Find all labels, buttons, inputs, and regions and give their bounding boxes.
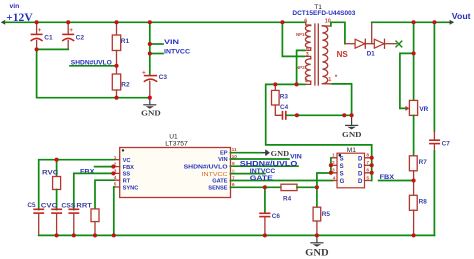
svg-text:R2: R2 <box>121 81 130 88</box>
svg-text:C7: C7 <box>442 140 451 147</box>
svg-text:T1: T1 <box>314 4 322 11</box>
transformer T1 secondary winding NS (pins 10,1) <box>322 18 348 84</box>
transformer T1 core <box>315 24 318 85</box>
junction dots VIN INTVCC stubs <box>148 42 152 56</box>
svg-text:R3: R3 <box>280 93 289 100</box>
junction dot SHDN divider <box>114 64 118 68</box>
svg-text:SYNC: SYNC <box>123 185 139 191</box>
diode D1 (dual, series) <box>345 22 397 57</box>
svg-text:FBX: FBX <box>123 165 135 171</box>
svg-text:RVC: RVC <box>42 169 59 176</box>
svg-text:+: + <box>69 27 73 34</box>
wire VR branch <box>413 22 415 53</box>
resistor R5 <box>313 187 330 235</box>
svg-text:GATE: GATE <box>250 175 274 182</box>
wire SHDN#/UVLO stub with net label <box>231 161 299 168</box>
svg-text:VC: VC <box>123 158 131 164</box>
junction dots Vout rail <box>412 20 437 24</box>
resistor R3 <box>272 84 289 115</box>
power port GND at EP pin <box>231 149 290 158</box>
junction dots snubber ground rail <box>295 113 354 117</box>
svg-text:SHDN#/UVLO: SHDN#/UVLO <box>240 161 298 168</box>
svg-text:D: D <box>358 156 363 162</box>
svg-text:D: D <box>358 164 363 170</box>
svg-text:6: 6 <box>366 168 369 174</box>
svg-text:S: S <box>340 171 344 177</box>
no-connect X on D1 <box>396 41 403 48</box>
svg-text:R7: R7 <box>419 159 428 166</box>
svg-text:LT3757: LT3757 <box>165 140 188 147</box>
svg-text:RT: RT <box>123 179 131 185</box>
net label FBX (left) with wire <box>80 167 114 176</box>
wire switch node (pin4 to drain) <box>266 84 372 144</box>
transformer T1 primary winding NP1 (pins 6,5) <box>296 19 311 53</box>
svg-text:D: D <box>358 171 363 177</box>
wire SYNC down to ground rail <box>113 187 116 235</box>
svg-text:C4: C4 <box>280 104 289 111</box>
transformer T1 primary winding NP2 (pins 3,4) <box>296 52 311 85</box>
svg-text:VIN: VIN <box>164 39 180 46</box>
resistor R2 <box>112 66 130 98</box>
capacitor C6 <box>259 187 280 235</box>
svg-text:EP: EP <box>220 150 228 156</box>
junction dot RVC tap <box>55 158 59 162</box>
resistor R7 <box>409 156 427 181</box>
wire pin10 to diode <box>331 22 345 43</box>
capacitor C3 <box>142 69 167 97</box>
svg-text:5: 5 <box>366 175 369 181</box>
resistor RVC <box>42 160 61 210</box>
svg-text:D: D <box>358 179 363 185</box>
junction dots M1 source bus <box>329 163 333 175</box>
svg-text:SS: SS <box>123 172 131 178</box>
svg-text:G: G <box>340 179 345 185</box>
svg-text:R4: R4 <box>283 196 292 203</box>
wire SENSE row <box>231 186 282 188</box>
svg-text:VIN: VIN <box>218 157 227 163</box>
svg-text:VR: VR <box>419 106 428 113</box>
junction dots M1 drain bus <box>370 156 374 175</box>
svg-text:FBX: FBX <box>80 169 95 176</box>
svg-text:CSS: CSS <box>61 202 76 209</box>
IC U1 LT3757 <box>120 134 231 198</box>
transformer T1 labels <box>292 4 356 17</box>
wire INTVCC stub with net label <box>231 168 276 175</box>
ground symbol transformer <box>342 115 362 139</box>
svg-text:GATE: GATE <box>212 179 228 185</box>
svg-text:Vout: Vout <box>452 11 471 21</box>
wire VIN stub with net label <box>231 154 303 161</box>
wire VR wiper loop <box>400 53 414 108</box>
U1 left pins (VC FBX SS RT SYNC) <box>114 155 139 191</box>
capacitor C5 <box>27 202 44 235</box>
svg-text:1: 1 <box>328 77 331 83</box>
junction dots switch node <box>273 82 298 86</box>
svg-text:VIN: VIN <box>290 154 302 161</box>
svg-text:DCT15EFD-U44S003: DCT15EFD-U44S003 <box>292 11 356 17</box>
wire transformer pin1 down to ground rail <box>333 84 352 115</box>
M1 right pins D D D D <box>358 153 372 185</box>
junction dots left ground node <box>114 96 151 100</box>
wire SS to CSS <box>74 173 115 209</box>
svg-text:GND: GND <box>342 130 362 139</box>
capacitor CSS <box>61 202 79 235</box>
svg-text:NP1: NP1 <box>296 32 305 37</box>
junction dots bottom rail <box>55 233 416 237</box>
wire VC to compensation network <box>39 160 115 210</box>
svg-text:+: + <box>38 27 42 34</box>
svg-text:INTVCC: INTVCC <box>250 168 276 175</box>
svg-text:SENSE: SENSE <box>208 186 227 192</box>
svg-text:INTVCC: INTVCC <box>202 172 228 178</box>
wire GATE to M1 gate <box>231 175 333 182</box>
svg-text:C3: C3 <box>159 74 168 81</box>
svg-text:INTVCC: INTVCC <box>164 48 191 55</box>
resistor R8 <box>409 181 427 236</box>
capacitor C2 <box>62 23 84 49</box>
MOSFET M1 <box>337 147 365 188</box>
net label SHDN#UVLO with wire <box>70 60 117 67</box>
capacitor C7 <box>429 22 450 235</box>
svg-text:S: S <box>340 164 344 170</box>
ground symbol below C3 <box>141 98 161 118</box>
svg-text:vin: vin <box>10 3 20 10</box>
svg-text:GND: GND <box>271 149 290 158</box>
svg-text:1: 1 <box>332 153 335 159</box>
svg-text:GND: GND <box>305 248 329 258</box>
junction dots U1 left pins <box>111 165 115 176</box>
svg-text:C1: C1 <box>44 34 53 41</box>
wire top rail (vin) <box>5 21 306 23</box>
wire bottom ground rail <box>39 234 435 236</box>
junction dot C1 bottom <box>35 47 39 51</box>
capacitor C1 <box>31 23 53 49</box>
junction dots top rail <box>35 20 285 24</box>
capacitor CVC <box>41 202 62 235</box>
svg-text:GND: GND <box>141 109 161 118</box>
wire snubber ground rail <box>287 114 352 116</box>
svg-text:4: 4 <box>333 175 336 181</box>
junction dots SENSE row <box>263 185 319 189</box>
resistor RRT <box>76 202 99 235</box>
junction dot VR tap <box>412 51 416 55</box>
svg-text:3: 3 <box>306 52 309 58</box>
wire M1 source bus <box>330 158 332 173</box>
net label FBX (right) with wire <box>379 174 414 181</box>
M1 left pins S S S G <box>332 153 345 185</box>
wire sense riser to M1 sources <box>317 173 331 187</box>
wire C1-C2 bottom node <box>37 49 150 97</box>
svg-text:C2: C2 <box>76 34 85 41</box>
net label VIN stub <box>150 39 180 46</box>
wire primary pin5 to pin4 node <box>297 50 305 84</box>
resistor R4 <box>281 184 317 202</box>
svg-text:S: S <box>340 156 344 162</box>
svg-text:CVC: CVC <box>41 202 58 209</box>
svg-text:NS: NS <box>337 50 349 59</box>
svg-text:10: 10 <box>325 18 331 24</box>
svg-text:D1: D1 <box>367 51 375 58</box>
svg-text:RRT: RRT <box>76 202 92 209</box>
junction dot FBX divider <box>412 178 416 182</box>
svg-text:C5: C5 <box>27 202 36 209</box>
svg-text:R8: R8 <box>419 199 428 206</box>
svg-text:R1: R1 <box>121 38 130 45</box>
svg-text:R5: R5 <box>322 211 331 218</box>
ground symbol bottom <box>305 235 329 257</box>
wire C3 branch from rail <box>149 22 151 75</box>
svg-text:M1: M1 <box>347 147 356 154</box>
power port +12V vin <box>1 3 34 25</box>
svg-text:7: 7 <box>366 160 369 166</box>
wire M1 drain bus <box>371 145 373 181</box>
wire top rail (Vout) <box>372 21 450 23</box>
resistor R1 <box>112 23 129 66</box>
net label INTVCC stub <box>150 48 191 55</box>
trimmer VR <box>405 53 428 155</box>
U1 right pins (EP VIN SHDN INTVCC GATE SENSE) <box>184 147 238 192</box>
svg-text:8: 8 <box>366 153 369 159</box>
svg-text:6: 6 <box>304 19 307 25</box>
capacitor C4 <box>280 104 289 120</box>
svg-text:SHDN#/UVLO: SHDN#/UVLO <box>184 164 229 170</box>
svg-text:C6: C6 <box>272 213 281 220</box>
wire RT to RRT <box>95 180 114 209</box>
wire primary feed pin3 from rail <box>282 22 304 56</box>
power port Vout <box>450 11 471 25</box>
